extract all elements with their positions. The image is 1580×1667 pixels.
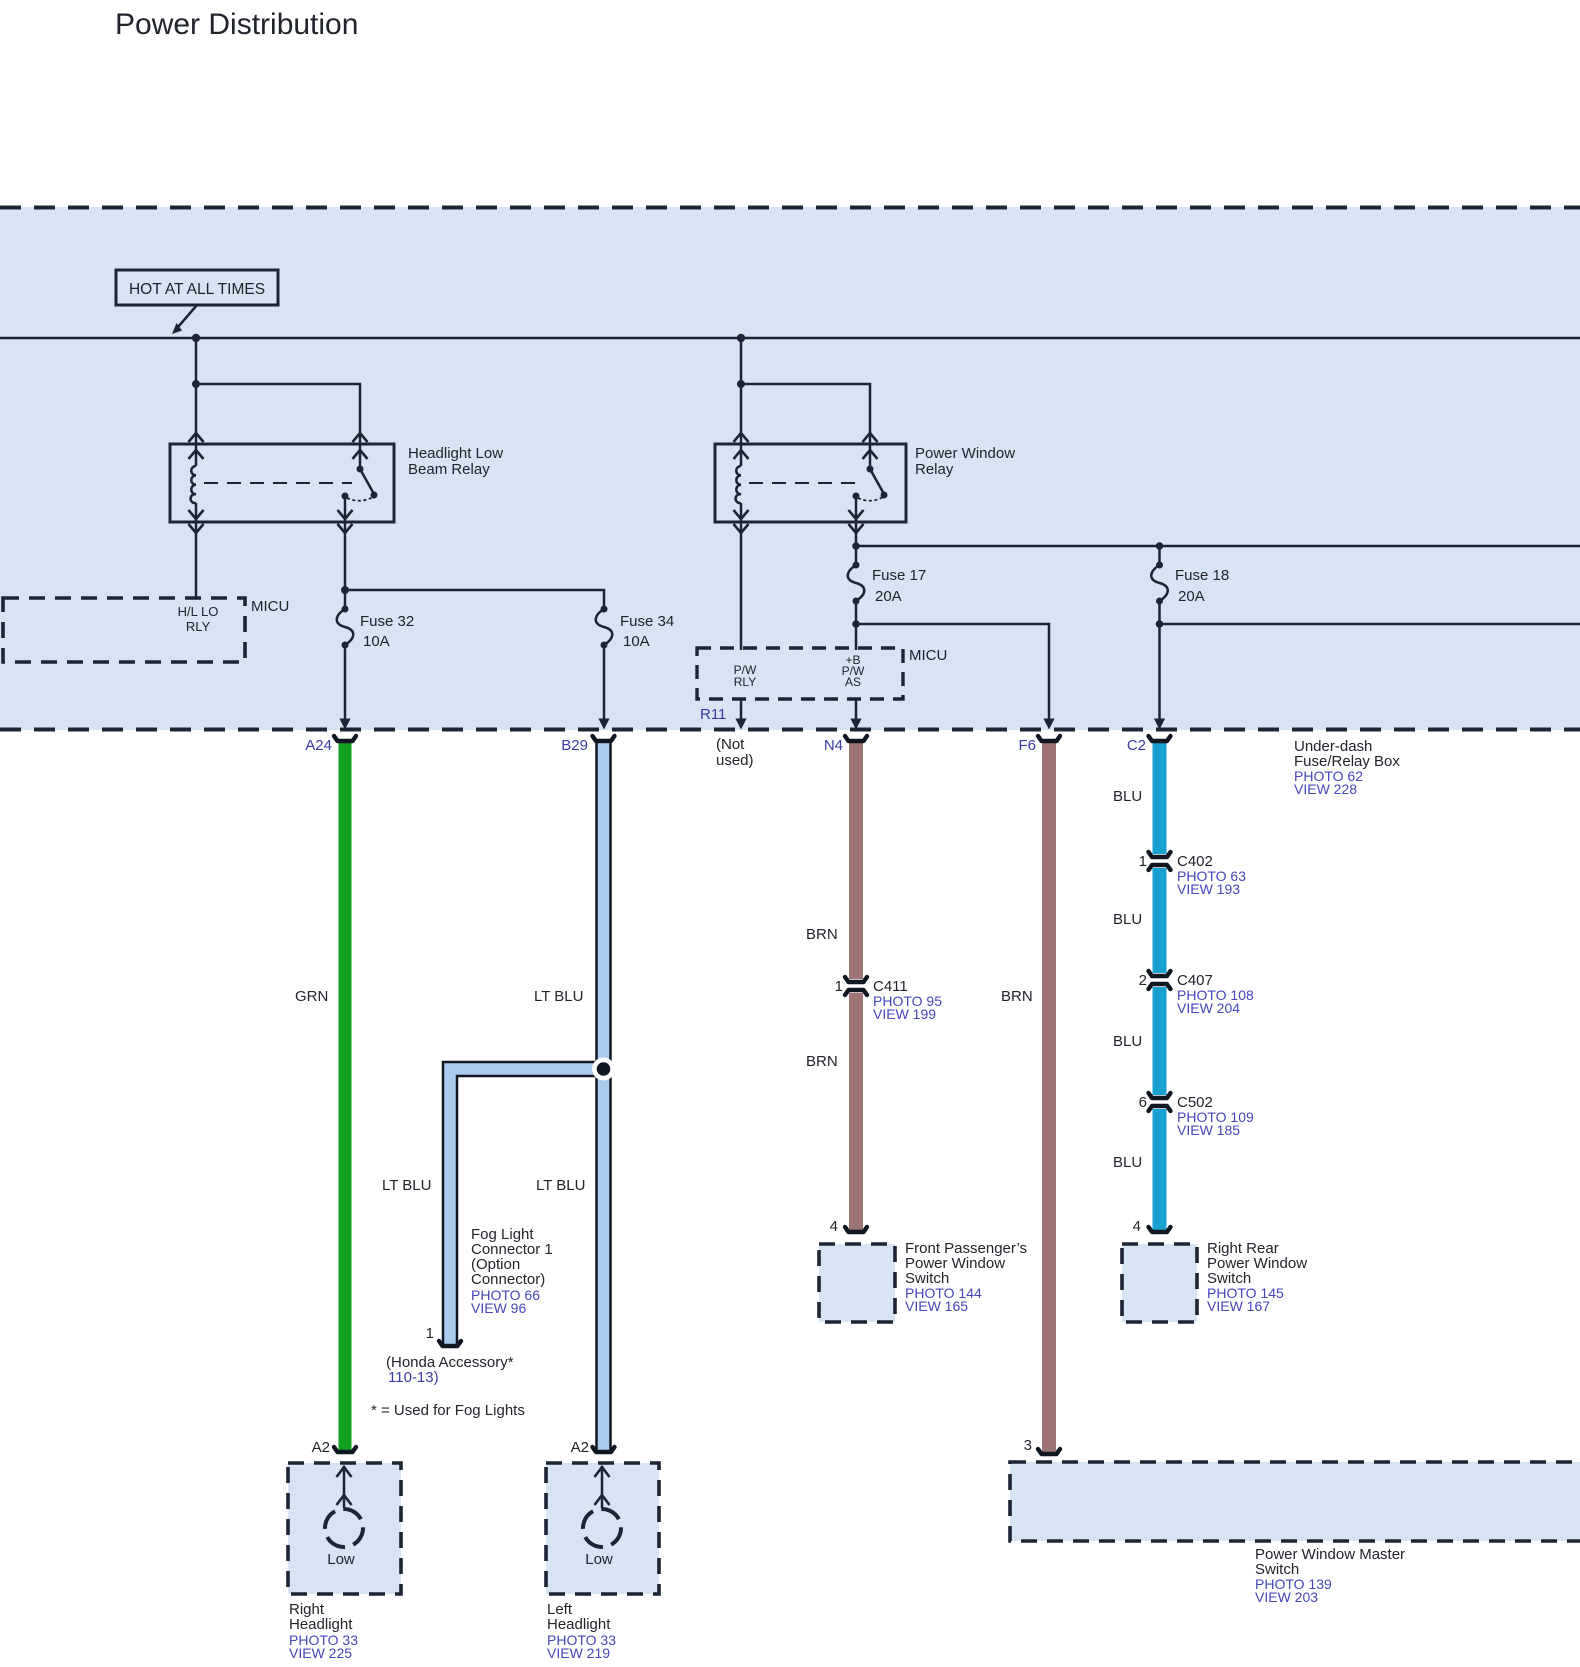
- svg-text:VIEW 185: VIEW 185: [1177, 1122, 1240, 1138]
- svg-text:1: 1: [426, 1325, 434, 1342]
- svg-text:10A: 10A: [623, 633, 650, 650]
- svg-text:(Not: (Not: [716, 736, 745, 753]
- svg-text:AS: AS: [845, 675, 861, 689]
- svg-text:VIEW 96: VIEW 96: [471, 1300, 526, 1316]
- svg-text:A2: A2: [312, 1439, 330, 1456]
- svg-text:GRN: GRN: [295, 988, 328, 1005]
- svg-text:20A: 20A: [1178, 588, 1205, 605]
- svg-text:Headlight Low: Headlight Low: [408, 445, 503, 462]
- svg-text:RLY: RLY: [734, 675, 756, 689]
- svg-text:VIEW 219: VIEW 219: [547, 1645, 610, 1661]
- svg-text:* = Used for Fog Lights: * = Used for Fog Lights: [371, 1402, 525, 1419]
- svg-text:VIEW 199: VIEW 199: [873, 1006, 936, 1022]
- svg-text:N4: N4: [824, 737, 843, 754]
- svg-text:VIEW 203: VIEW 203: [1255, 1589, 1318, 1605]
- svg-text:Low: Low: [327, 1551, 355, 1568]
- svg-text:B29: B29: [561, 737, 588, 754]
- svg-text:MICU: MICU: [251, 598, 289, 615]
- svg-text:R11: R11: [700, 706, 726, 723]
- svg-text:Fuse 18: Fuse 18: [1175, 567, 1229, 584]
- svg-text:used): used): [716, 752, 754, 769]
- svg-text:VIEW 225: VIEW 225: [289, 1645, 352, 1661]
- svg-text:VIEW 167: VIEW 167: [1207, 1298, 1270, 1314]
- svg-text:A2: A2: [571, 1439, 589, 1456]
- svg-text:LT BLU: LT BLU: [382, 1177, 431, 1194]
- svg-text:Low: Low: [585, 1551, 613, 1568]
- svg-text:6: 6: [1139, 1094, 1147, 1111]
- svg-text:VIEW 165: VIEW 165: [905, 1298, 968, 1314]
- svg-text:BRN: BRN: [806, 926, 838, 943]
- svg-text:H/L LO: H/L LO: [178, 604, 219, 619]
- svg-text:C2: C2: [1127, 737, 1146, 754]
- svg-text:4: 4: [1133, 1218, 1141, 1235]
- svg-text:1: 1: [835, 978, 843, 995]
- svg-text:1: 1: [1139, 853, 1147, 870]
- svg-text:3: 3: [1024, 1437, 1032, 1454]
- svg-text:Power Distribution: Power Distribution: [115, 8, 358, 41]
- svg-text:BLU: BLU: [1113, 1154, 1142, 1171]
- svg-text:VIEW 193: VIEW 193: [1177, 881, 1240, 897]
- svg-text:Fuse 34: Fuse 34: [620, 613, 674, 630]
- svg-text:BRN: BRN: [806, 1053, 838, 1070]
- svg-text:MICU: MICU: [909, 647, 947, 664]
- svg-text:BLU: BLU: [1113, 1033, 1142, 1050]
- svg-text:VIEW 228: VIEW 228: [1294, 781, 1357, 797]
- svg-text:Fuse 32: Fuse 32: [360, 613, 414, 630]
- svg-text:Headlight: Headlight: [289, 1616, 353, 1633]
- svg-text:BLU: BLU: [1113, 788, 1142, 805]
- svg-text:BRN: BRN: [1001, 988, 1033, 1005]
- svg-text:Beam Relay: Beam Relay: [408, 461, 490, 478]
- svg-text:Fuse 17: Fuse 17: [872, 567, 926, 584]
- svg-text:LT BLU: LT BLU: [534, 988, 583, 1005]
- svg-text:110-13): 110-13): [388, 1369, 439, 1386]
- svg-text:A24: A24: [305, 737, 332, 754]
- svg-text:Connector): Connector): [471, 1271, 545, 1288]
- svg-text:4: 4: [830, 1218, 838, 1235]
- svg-text:BLU: BLU: [1113, 911, 1142, 928]
- svg-text:10A: 10A: [363, 633, 390, 650]
- svg-text:VIEW 204: VIEW 204: [1177, 1000, 1240, 1016]
- svg-text:HOT AT ALL TIMES: HOT AT ALL TIMES: [129, 281, 265, 298]
- svg-text:20A: 20A: [875, 588, 902, 605]
- svg-text:LT BLU: LT BLU: [536, 1177, 585, 1194]
- svg-text:2: 2: [1139, 972, 1147, 989]
- svg-text:RLY: RLY: [186, 619, 211, 634]
- svg-text:Relay: Relay: [915, 461, 954, 478]
- svg-text:Headlight: Headlight: [547, 1616, 611, 1633]
- svg-text:F6: F6: [1018, 737, 1036, 754]
- svg-text:Power Window: Power Window: [915, 445, 1015, 462]
